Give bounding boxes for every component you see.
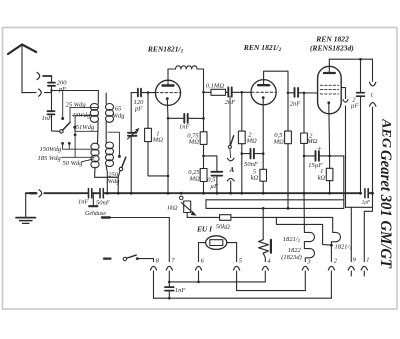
svg-text:AEG: AEG: [380, 118, 394, 148]
wire tap 51Wdg: [75, 127, 98, 131]
terminal pin 2: [328, 266, 334, 270]
wire rail pins 7-6-4: [169, 281, 265, 283]
svg-text:1kΩ: 1kΩ: [167, 204, 178, 211]
node grid tube3 junction: [303, 92, 306, 95]
antenna: [8, 45, 36, 55]
wire TA branch: [229, 96, 231, 145]
speaker line: [372, 59, 374, 81]
svg-text:1nF: 1nF: [175, 287, 187, 294]
wire screen to bottom rail: [345, 106, 347, 207]
capacitor 0.5uF: [216, 156, 218, 171]
resistor 50kOhm: [187, 216, 219, 218]
node 1M-cathode junction: [167, 175, 170, 178]
wire gehaeuse rail: [102, 216, 110, 218]
socket TA jack pair: [227, 158, 234, 181]
svg-text:kΩ: kΩ: [251, 175, 259, 182]
svg-text:MΩ: MΩ: [273, 138, 284, 145]
svg-text:MΩ: MΩ: [152, 137, 163, 144]
node grid tube2 junction: [241, 91, 244, 94]
wire rail pins 8-2: [154, 297, 332, 299]
switch TA blade: [231, 136, 234, 145]
capacitor 2nF coupling to V2: [228, 87, 231, 96]
resistor 2MOhm grid leak V2: [241, 92, 243, 131]
svg-text:EU I: EU I: [196, 225, 213, 234]
node heater2 junction: [330, 244, 333, 247]
wire 200pF leads: [51, 76, 53, 93]
node anode output junction: [202, 91, 205, 94]
wire tap 185Wdg: [62, 156, 95, 158]
node 1nF right junction: [202, 117, 205, 120]
tube V3 grids: [320, 85, 338, 94]
socket antenna jack 2: [39, 89, 42, 96]
svg-text:Wdg: Wdg: [108, 178, 121, 185]
wire node A to 0.5uF: [204, 155, 217, 157]
socket speaker jack pair: [370, 82, 376, 106]
switch mains: [104, 258, 111, 260]
resistor ballast heater: [262, 208, 264, 239]
tube V2 grid: [251, 91, 275, 93]
tube V2 cathode: [262, 96, 265, 99]
svg-text:5: 5: [239, 258, 242, 265]
socket screen connector: [343, 100, 348, 103]
switch antenna selector pivot: [60, 130, 63, 133]
node pin6: [197, 281, 200, 284]
svg-text:kΩ: kΩ: [318, 175, 326, 182]
terminal pin 5: [234, 266, 240, 270]
resistor 2MOhm grid leak V3: [303, 93, 305, 133]
node cathode-1nF junction: [167, 117, 170, 120]
svg-text:A: A: [229, 167, 235, 174]
node grid tube1: [147, 91, 150, 94]
node 2M-50nF junction: [241, 152, 244, 155]
wire rail W1 jog: [205, 200, 207, 209]
svg-text:MΩ: MΩ: [246, 138, 257, 145]
wire cathode tube2 down: [262, 98, 264, 194]
wire TA pivot to jack: [229, 148, 232, 157]
tube V2 REN1821/2 envelope: [251, 80, 276, 105]
node bus junctions: [106, 192, 374, 195]
capacitor 15uF electrolytic: [304, 155, 315, 157]
svg-text:REN 1822: REN 1822: [315, 35, 349, 44]
svg-text:2µF: 2µF: [362, 200, 370, 205]
variable capacitor tuning: [130, 93, 132, 194]
svg-text:pF: pF: [134, 105, 143, 112]
node tap contact a: [61, 142, 64, 145]
switch antenna selector blade: [62, 122, 70, 130]
tube V1 anode: [163, 84, 174, 86]
node W2 0.5M tap: [287, 207, 290, 210]
wire anode tube2 to 2nF: [264, 71, 288, 93]
svg-text:1: 1: [366, 257, 369, 264]
capacitor 1nF bus series: [89, 189, 92, 198]
node switch contact upper: [61, 117, 64, 120]
wire screen grid tube3: [341, 88, 345, 99]
socket ground jack: [30, 192, 36, 194]
terminal pin 6: [195, 266, 201, 270]
coil L4 lower-right winding 250Wdg: [106, 142, 114, 149]
svg-text:(RENS1823d): (RENS1823d): [310, 44, 354, 53]
tube V3 cathode: [327, 101, 330, 104]
svg-text:pF: pF: [58, 86, 67, 93]
svg-text:50kΩ: 50kΩ: [216, 223, 230, 230]
wire tap riser: [69, 108, 71, 123]
wire pin7 node: [168, 281, 171, 284]
svg-text:L: L: [370, 93, 374, 99]
svg-text:1821/2: 1821/2: [283, 236, 301, 243]
node band switch contact: [118, 155, 121, 158]
terminal pin 9: [350, 207, 352, 261]
wire cathode tube1 down to bus: [166, 99, 169, 194]
wire 1nF leads to switch pivot: [52, 93, 60, 132]
svg-text:51Wdg: 51Wdg: [76, 124, 95, 131]
tube V1 cathode: [166, 97, 169, 100]
node 43Wdg-185Wdg link: [74, 134, 77, 137]
capacitor 1nF cathode coupling: [168, 117, 184, 119]
svg-text:50nF: 50nF: [244, 161, 259, 168]
capacitor 1nF antenna: [48, 111, 55, 114]
resistor 1MOhm grid leak: [147, 93, 149, 129]
svg-text:Wdg: Wdg: [113, 112, 126, 119]
svg-text:185 Wdg: 185 Wdg: [38, 155, 62, 162]
switch band selector feed: [108, 132, 119, 155]
node tap contact b: [68, 142, 71, 145]
node 15uF left junction: [303, 155, 306, 158]
node bottom rail: [168, 297, 171, 300]
terminal pin 4: [262, 266, 268, 270]
resistor 0.75MOhm: [203, 118, 205, 131]
capacitor 2nF coupling to V3: [288, 92, 294, 94]
terminal pin 7: [166, 266, 172, 270]
wire pivot to bus: [118, 171, 120, 178]
node A junction: [202, 155, 205, 158]
capacitor 1nF bottom: [165, 287, 174, 291]
node anode2 junction: [287, 92, 290, 95]
capacitor 120pF: [131, 92, 137, 94]
switch TA pivot: [228, 145, 231, 148]
svg-text:50 Wdg: 50 Wdg: [63, 160, 84, 167]
heater 1821 filament: [331, 217, 340, 261]
tube V2 anode: [258, 84, 269, 86]
resistor 0.25MOhm: [203, 156, 205, 169]
wire TA jack to bus: [230, 181, 232, 193]
capacitor 200pF: [48, 83, 55, 86]
svg-text:0,1MΩ: 0,1MΩ: [206, 82, 225, 89]
svg-text:Gearet 301 GM/GT: Gearet 301 GM/GT: [377, 150, 394, 269]
ground bus main: [26, 192, 373, 194]
wire tap 50Wdg: [81, 159, 93, 162]
wire tap 43Wdg: [75, 115, 98, 157]
svg-text:REN 1821/2: REN 1821/2: [243, 43, 282, 53]
socket antenna jack 1: [37, 72, 40, 79]
wire rail pins 5-3: [237, 290, 306, 292]
svg-text:+: +: [317, 144, 322, 152]
wire heater1 feed: [303, 193, 305, 232]
wire grid node to tube1: [148, 92, 156, 94]
wire rail W2: [206, 207, 344, 209]
svg-text:MΩ: MΩ: [188, 139, 199, 146]
svg-text:REN1821/1: REN1821/1: [147, 44, 184, 54]
svg-text:25 Wdg: 25 Wdg: [66, 101, 87, 108]
coil L3 lower-left mains winding: [91, 143, 99, 150]
tube V3 REN1822 envelope: [318, 66, 342, 114]
potentiometer 1kOhm: [180, 196, 184, 200]
svg-text:MΩ: MΩ: [189, 176, 200, 183]
node cathode 50nF junction: [262, 152, 265, 155]
inductor anode choke: [168, 69, 176, 86]
resistor 1kOhm cathode V3: [329, 156, 331, 168]
coil L1 upper-left winding: [97, 91, 99, 105]
chassis Gehaeuse connection: [92, 193, 94, 205]
wire contact drop: [62, 91, 64, 118]
capacitor 50nF bus series: [100, 189, 103, 198]
terminal pin 3: [302, 266, 308, 270]
svg-text:1822: 1822: [288, 247, 302, 254]
wire L1 to L3 spine: [97, 127, 100, 144]
resistor 0.1MOhm coupling: [204, 91, 212, 93]
wire anode top rail: [329, 58, 372, 60]
svg-text:1nF: 1nF: [42, 115, 54, 122]
lamp EU I barretter: [206, 236, 227, 250]
node W2 ballast tap: [262, 207, 265, 210]
switch band selector blade: [122, 157, 126, 167]
tube V3 anode: [324, 72, 335, 74]
wire heater feed jog W4: [276, 217, 331, 245]
svg-text:µF: µF: [210, 183, 219, 190]
earth ground symbol: [25, 193, 27, 217]
node antenna-coil junction: [50, 89, 52, 91]
resistor 0.5MOhm anode load V2: [287, 93, 289, 131]
wire pin7 drop: [168, 218, 170, 262]
capacitor 2uF anode: [360, 59, 362, 92]
svg-text:2nF: 2nF: [290, 101, 302, 108]
wire anode3 riser: [328, 59, 330, 73]
wire tap 25Wdg: [70, 107, 98, 109]
terminal pin 8: [150, 266, 156, 270]
node cathode3 junction: [328, 155, 331, 158]
svg-text:µF: µF: [351, 103, 360, 110]
svg-text:1nF: 1nF: [78, 199, 90, 206]
capacitor 50nF cathode: [242, 153, 250, 155]
wire antenna node to coil top: [52, 90, 99, 92]
wire speaker to bus: [372, 107, 374, 193]
wire cathode node corner down: [343, 156, 345, 209]
wire tap 150Wdg: [63, 148, 94, 150]
svg-text:43Wdg: 43Wdg: [72, 112, 91, 119]
heater 1822 filament: [304, 232, 314, 261]
svg-text:2nF: 2nF: [225, 99, 237, 106]
svg-text:1nF: 1nF: [179, 123, 191, 130]
svg-text:(1823d): (1823d): [281, 254, 302, 261]
svg-text:150Wdg: 150Wdg: [40, 146, 62, 153]
node 2uF tap: [359, 58, 362, 61]
terminal pin 1: [372, 193, 374, 207]
svg-text:Gehäuse: Gehäuse: [85, 211, 106, 217]
svg-text:3: 3: [306, 259, 310, 266]
coil L2 upper-right winding 65Wdg: [105, 93, 107, 104]
wire rail W1: [206, 199, 344, 201]
svg-text:50nF: 50nF: [96, 199, 111, 206]
node switch contact 51Wdg: [73, 126, 76, 129]
switch band selector pivot: [119, 167, 122, 170]
resistor 5kOhm cathode: [260, 169, 267, 181]
tube V1 REN1821/1 envelope: [155, 80, 180, 105]
capacitor 2uF bus series: [365, 189, 368, 198]
svg-text:1821/1: 1821/1: [335, 243, 352, 250]
wire antenna to socket: [22, 92, 36, 94]
tube V1 grid: [156, 92, 181, 94]
wire cathode3 down: [328, 103, 331, 156]
